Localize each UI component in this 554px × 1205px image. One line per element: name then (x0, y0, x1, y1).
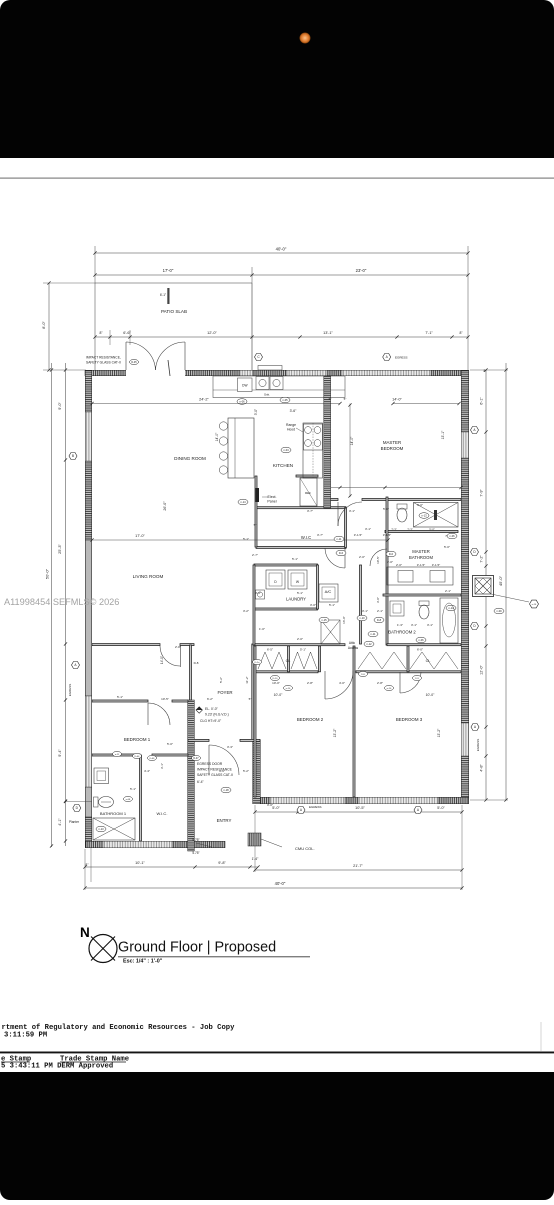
svg-text:13'-2": 13'-2" (437, 728, 441, 737)
svg-text:5'-1": 5'-1" (297, 591, 303, 595)
svg-text:5'-0": 5'-0" (444, 545, 450, 549)
svg-text:6'-2": 6'-2" (207, 697, 213, 701)
svg-text:SAFETY GLASS CAT-II: SAFETY GLASS CAT-II (86, 361, 121, 365)
svg-text:6'-1": 6'-1" (160, 293, 166, 297)
svg-text:ENTRY: ENTRY (217, 818, 232, 823)
svg-text:7'-1": 7'-1" (425, 331, 433, 335)
svg-text:5": 5" (329, 397, 332, 401)
svg-text:n-11: n-11 (337, 537, 343, 541)
svg-text:24'-2": 24'-2" (199, 398, 209, 402)
svg-text:DINING ROOM: DINING ROOM (174, 456, 206, 461)
svg-text:10'-0": 10'-0" (274, 693, 283, 697)
svg-text:13'-1": 13'-1" (323, 331, 333, 335)
svg-text:5'-1": 5'-1" (243, 537, 249, 541)
svg-text:MASTER: MASTER (383, 440, 401, 445)
svg-text:n-13: n-13 (421, 513, 427, 517)
svg-text:D-8: D-8 (194, 661, 199, 665)
svg-text:D-10: D-10 (273, 678, 279, 680)
svg-text:45'-0": 45'-0" (498, 575, 503, 586)
svg-text:14'-0": 14'-0" (392, 398, 402, 402)
svg-text:D-04: D-04 (135, 756, 141, 758)
svg-text:5 3:43:11 PM DERM Approved: 5 3:43:11 PM DERM Approved (1, 1063, 113, 1071)
svg-text:D-07: D-07 (193, 757, 199, 760)
svg-text:n-12: n-12 (366, 642, 372, 646)
svg-text:CL: CL (426, 659, 431, 663)
svg-text:5'-1": 5'-1" (292, 557, 298, 561)
svg-text:n-08: n-08 (126, 799, 131, 801)
svg-text:10'-0": 10'-0" (272, 681, 280, 685)
svg-text:EGRESS: EGRESS (68, 684, 72, 697)
svg-text:EGRESS: EGRESS (309, 805, 322, 809)
svg-text:n-06: n-06 (418, 638, 424, 642)
svg-text:2'-1": 2'-1" (377, 609, 383, 613)
svg-text:16'-0": 16'-0" (342, 616, 346, 624)
svg-text:4'-0": 4'-0" (339, 681, 345, 685)
svg-text:4'-8": 4'-8" (480, 764, 484, 772)
svg-text:5'-0": 5'-0" (167, 742, 173, 746)
svg-text:1'-0": 1'-0" (259, 627, 265, 631)
svg-text:n-05: n-05 (282, 398, 288, 402)
svg-text:3'-3": 3'-3" (227, 745, 233, 749)
svg-text:12'-0": 12'-0" (480, 665, 484, 675)
svg-text:n-13: n-13 (448, 606, 454, 610)
svg-text:6'-1": 6'-1" (480, 397, 484, 405)
svg-text:2'-7": 2'-7" (252, 553, 258, 557)
svg-text:BATHROOM 1: BATHROOM 1 (100, 811, 127, 816)
svg-text:1'-4": 1'-4" (252, 857, 260, 861)
svg-text:9'-8": 9'-8" (218, 861, 226, 865)
svg-text:EL. 0'-0": EL. 0'-0" (205, 707, 219, 711)
svg-text:A11998454 SEFMLS© 2026: A11998454 SEFMLS© 2026 (4, 597, 119, 607)
svg-text:9'-4": 9'-4" (58, 749, 62, 757)
svg-text:14'-0": 14'-0" (160, 656, 164, 664)
svg-text:BATHROOM: BATHROOM (409, 555, 433, 560)
svg-text:BEDROOM: BEDROOM (381, 446, 404, 451)
svg-text:n-06: n-06 (239, 399, 245, 403)
svg-text:2'-8": 2'-8" (175, 645, 181, 649)
svg-text:W.I.C: W.I.C (301, 535, 311, 540)
svg-text:FOYER: FOYER (217, 690, 232, 695)
svg-text:3'-0": 3'-0" (376, 597, 380, 603)
svg-text:5'-0": 5'-0" (383, 507, 389, 511)
svg-text:n-16: n-16 (532, 604, 537, 606)
svg-text:8": 8" (484, 369, 487, 373)
svg-text:CMU COL.: CMU COL. (295, 846, 315, 851)
svg-text:23'-0": 23'-0" (356, 268, 367, 273)
svg-text:5.75": 5.75" (192, 851, 199, 855)
svg-text:5'-1": 5'-1" (329, 603, 335, 607)
svg-text:4'-4": 4'-4" (144, 769, 150, 773)
svg-text:Panel: Panel (267, 500, 276, 504)
svg-text:5": 5" (254, 523, 257, 527)
svg-text:N: N (80, 925, 90, 940)
svg-text:5'-0": 5'-0" (429, 528, 435, 532)
svg-text:6'-0": 6'-0" (417, 648, 423, 652)
svg-text:Elect.: Elect. (268, 495, 277, 499)
svg-text:D-0: D-0 (389, 552, 394, 556)
svg-text:8'-0": 8'-0" (42, 321, 46, 329)
svg-text:5'-1": 5'-1" (130, 787, 136, 791)
svg-text:REF: REF (305, 491, 311, 495)
svg-text:7'-3": 7'-3" (407, 528, 413, 532)
svg-text:26'-0": 26'-0" (163, 501, 167, 511)
svg-text:A/C: A/C (325, 589, 332, 594)
svg-text:3'-7": 3'-7" (307, 509, 313, 513)
svg-text:D-1a: D-1a (255, 662, 261, 664)
svg-text:5": 5" (249, 697, 252, 701)
svg-text:n-15: n-15 (321, 618, 327, 622)
svg-text:Planter: Planter (69, 820, 80, 824)
svg-text:40'-0": 40'-0" (275, 881, 286, 886)
svg-text:Esc: 1/4" : 1'-0": Esc: 1/4" : 1'-0" (123, 959, 163, 965)
svg-text:5'-1": 5'-1" (300, 648, 306, 652)
svg-text:11'-2": 11'-2" (245, 676, 249, 683)
svg-text:3'-1": 3'-1" (362, 609, 368, 613)
svg-text:17'-0": 17'-0" (135, 534, 145, 538)
svg-text:5'-2": 5'-2" (243, 769, 249, 773)
svg-text:3'-0": 3'-0" (254, 409, 258, 415)
svg-text:13'-2": 13'-2" (333, 728, 337, 737)
svg-text:9.23' (N.G.V.D.): 9.23' (N.G.V.D.) (205, 713, 229, 717)
svg-text:W.I.C.: W.I.C. (157, 811, 168, 816)
svg-text:10'-0": 10'-0" (426, 693, 435, 697)
svg-text:5'-2": 5'-2" (219, 677, 223, 683)
svg-text:n-18: n-18 (223, 788, 229, 792)
svg-text:9'-0": 9'-0" (58, 402, 62, 410)
svg-text:1'-3": 1'-3" (397, 623, 403, 627)
svg-text:12'-0": 12'-0" (207, 331, 217, 335)
svg-text:D-6: D-6 (339, 551, 344, 555)
svg-text:5'-0": 5'-0" (437, 806, 445, 810)
svg-text:2'-8": 2'-8" (307, 681, 313, 685)
svg-text:3'-1.5": 3'-1.5" (383, 533, 391, 537)
svg-text:EGRESS: EGRESS (476, 739, 480, 752)
svg-text:3'-1.5": 3'-1.5" (354, 533, 362, 537)
svg-text:3'-1": 3'-1" (427, 623, 433, 627)
svg-text:10'-5": 10'-5" (355, 806, 365, 810)
svg-text:KITCHEN: KITCHEN (273, 463, 293, 468)
svg-text:SAFETY GLASS CAT-II: SAFETY GLASS CAT-II (197, 773, 233, 777)
svg-text:n-14: n-14 (240, 500, 246, 504)
svg-text:3'-2": 3'-2" (243, 609, 249, 613)
svg-text:13'-1": 13'-1" (441, 430, 445, 439)
svg-text:2'-1": 2'-1" (461, 609, 467, 613)
svg-text:10'-5": 10'-5" (376, 556, 380, 564)
svg-text:6'-5": 6'-5" (267, 648, 273, 652)
svg-text:3'-1": 3'-1" (349, 509, 355, 513)
svg-text:40'-0": 40'-0" (276, 247, 287, 252)
svg-text:50'-0": 50'-0" (45, 568, 50, 579)
svg-text:7'-2": 7'-2" (480, 555, 484, 563)
svg-text:IMPACT RESISTANCE: IMPACT RESISTANCE (197, 768, 233, 772)
svg-text:EGRESS DOOR: EGRESS DOOR (197, 762, 223, 766)
svg-text:n-04: n-04 (283, 448, 289, 452)
svg-text:IMPACT RESISTANCE,: IMPACT RESISTANCE, (86, 356, 121, 360)
svg-text:3'-7": 3'-7" (317, 533, 323, 537)
svg-text:BEDROOM 3: BEDROOM 3 (396, 717, 423, 722)
svg-text:2'-1": 2'-1" (445, 589, 451, 593)
svg-text:n-11: n-11 (371, 632, 377, 636)
svg-text:DW: DW (242, 384, 247, 388)
svg-text:10'-1": 10'-1" (135, 861, 145, 865)
svg-text:Range: Range (286, 423, 296, 427)
svg-text:Attic: Attic (349, 641, 356, 645)
svg-text:n-06: n-06 (449, 534, 455, 538)
svg-text:CL: CL (286, 659, 291, 663)
svg-text:3'-1": 3'-1" (365, 527, 371, 531)
svg-text:Ground Floor | Proposed: Ground Floor | Proposed (118, 940, 276, 956)
svg-text:3'-1": 3'-1" (411, 623, 417, 627)
svg-text:2'-0": 2'-0" (387, 560, 393, 564)
svg-text:LIVING ROOM: LIVING ROOM (133, 574, 164, 579)
svg-text:Snk.: Snk. (264, 393, 270, 397)
svg-text:3'-6": 3'-6" (290, 409, 298, 413)
svg-text:n-10: n-10 (359, 616, 365, 620)
svg-text:B: B (72, 454, 74, 458)
svg-text:5'-0": 5'-0" (272, 806, 280, 810)
svg-text:2'-0": 2'-0" (297, 637, 303, 641)
svg-text:25'-3": 25'-3" (58, 544, 62, 554)
svg-text:BATHROOM 2: BATHROOM 2 (388, 630, 416, 635)
svg-text:BEDROOM 2: BEDROOM 2 (297, 717, 324, 722)
svg-text:2'-0": 2'-0" (396, 563, 402, 567)
svg-text:BEDROOM 1: BEDROOM 1 (124, 737, 151, 742)
svg-text:MASTER: MASTER (412, 549, 429, 554)
svg-text:n-09: n-09 (496, 609, 502, 613)
svg-text:PATIO SLAB: PATIO SLAB (161, 309, 187, 314)
svg-text:D-05: D-05 (131, 361, 137, 364)
svg-text:7'-9": 7'-9" (480, 489, 484, 497)
svg-text:3'-1": 3'-1" (160, 763, 164, 769)
svg-text:14'-0": 14'-0" (350, 436, 354, 445)
svg-text:8": 8" (86, 863, 89, 867)
svg-text:7'-3": 7'-3" (391, 528, 397, 532)
svg-text:5": 5" (344, 397, 347, 401)
svg-text:3'-1.5": 3'-1.5" (432, 563, 440, 567)
svg-text:10'-5": 10'-5" (161, 697, 169, 701)
svg-text:2'-0": 2'-0" (359, 555, 365, 559)
svg-text:LAUNDRY: LAUNDRY (286, 597, 306, 602)
svg-text:n-10: n-10 (286, 688, 291, 690)
svg-text:6'-4": 6'-4" (197, 780, 205, 784)
svg-text:5.75": 5.75" (192, 838, 199, 842)
svg-text:Hood: Hood (287, 428, 295, 432)
svg-text:4'-6": 4'-6" (219, 769, 225, 773)
svg-text:4'-1": 4'-1" (58, 818, 62, 826)
svg-text:14'-0": 14'-0" (215, 432, 219, 441)
svg-text:CLG HT=9'-0": CLG HT=9'-0" (200, 719, 222, 723)
svg-text:n-10: n-10 (387, 688, 392, 690)
svg-text:17'-0": 17'-0" (163, 268, 174, 273)
svg-text:21'-7": 21'-7" (353, 864, 363, 868)
svg-text:3'-0": 3'-0" (417, 503, 423, 507)
svg-text:D-06: D-06 (150, 758, 156, 760)
svg-text:5'-1": 5'-1" (117, 695, 123, 699)
svg-text:3:11:59 PM: 3:11:59 PM (4, 1032, 47, 1040)
svg-text:3'-1.5": 3'-1.5" (417, 563, 425, 567)
svg-text:EGRESS: EGRESS (395, 356, 408, 360)
svg-text:Access: Access (348, 646, 359, 650)
svg-text:3'-0": 3'-0" (267, 803, 273, 807)
svg-text:3'-0": 3'-0" (310, 603, 316, 607)
svg-text:n-13: n-13 (98, 827, 104, 831)
svg-text:2'-8": 2'-8" (377, 681, 383, 685)
svg-text:D-8: D-8 (377, 618, 382, 622)
